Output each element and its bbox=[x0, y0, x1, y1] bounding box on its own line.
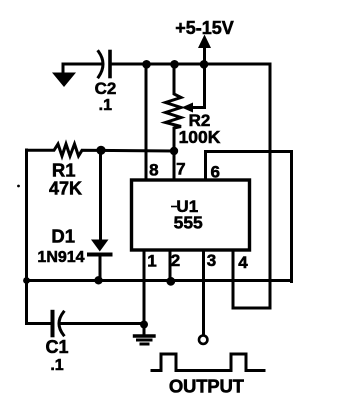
svg-text:1: 1 bbox=[147, 252, 156, 271]
svg-text:.1: .1 bbox=[99, 97, 112, 114]
svg-text:100K: 100K bbox=[179, 127, 221, 147]
svg-text:D1: D1 bbox=[51, 226, 75, 247]
svg-text:C2: C2 bbox=[95, 79, 117, 98]
svg-text:2: 2 bbox=[171, 251, 180, 270]
svg-text:OUTPUT: OUTPUT bbox=[169, 376, 245, 397]
svg-text:4: 4 bbox=[238, 253, 248, 272]
svg-text:C1: C1 bbox=[45, 337, 68, 357]
svg-text:R1: R1 bbox=[52, 160, 76, 181]
svg-text:555: 555 bbox=[174, 213, 203, 233]
svg-text:3: 3 bbox=[207, 251, 216, 270]
svg-text:47K: 47K bbox=[49, 179, 82, 199]
svg-text:6: 6 bbox=[210, 163, 219, 182]
svg-text:1N914: 1N914 bbox=[37, 249, 84, 266]
svg-text:+5-15V: +5-15V bbox=[175, 18, 234, 38]
svg-text:7: 7 bbox=[176, 160, 185, 179]
svg-text:.1: .1 bbox=[50, 357, 63, 374]
svg-text:8: 8 bbox=[149, 161, 158, 180]
